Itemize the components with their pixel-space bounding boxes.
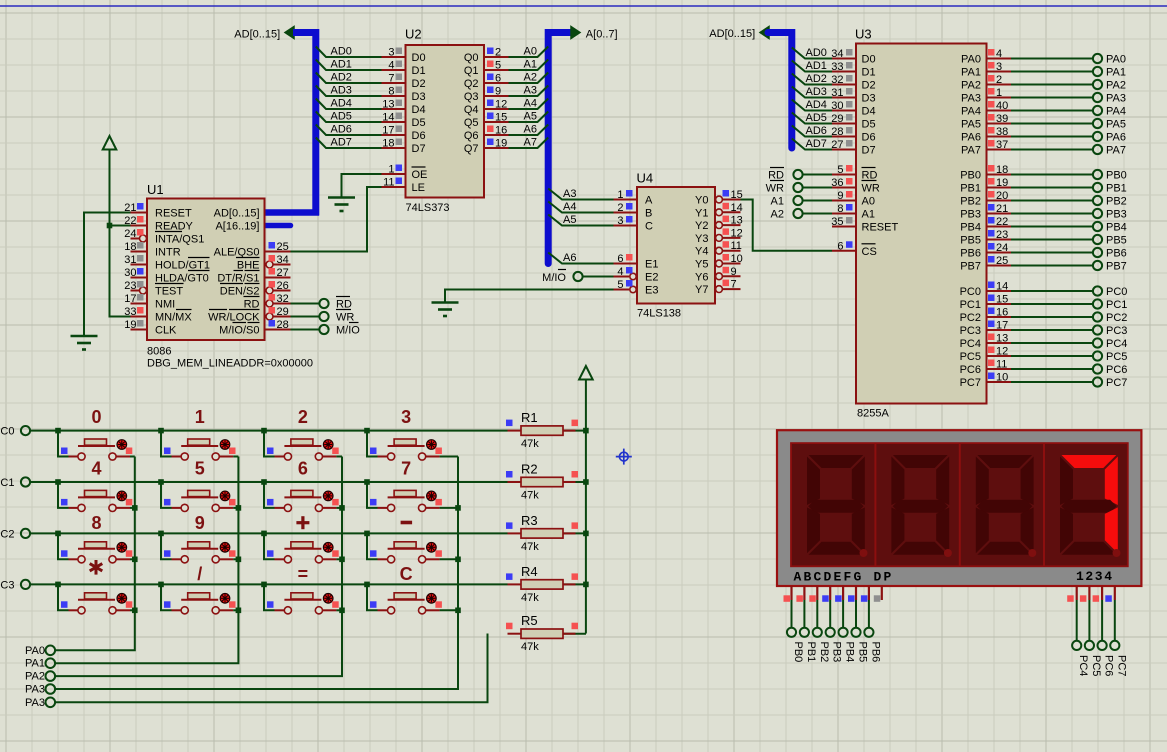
wire AD2 bus entry to U3 D2 bbox=[792, 73, 832, 85]
svg-text:PC6: PC6 bbox=[1106, 364, 1127, 376]
svg-text:PC2: PC2 bbox=[960, 312, 981, 324]
svg-text:D5: D5 bbox=[412, 117, 426, 129]
svg-text:AD4: AD4 bbox=[806, 99, 827, 111]
svg-text:Y0: Y0 bbox=[695, 195, 708, 207]
svg-text:29: 29 bbox=[831, 113, 843, 125]
wire AD5 bus entry to U3 D5 bbox=[792, 112, 832, 124]
wire keypad column 3 vertical to PA3 bbox=[55, 457, 458, 690]
svg-text:22: 22 bbox=[996, 216, 1008, 228]
svg-text:PA6: PA6 bbox=[961, 132, 981, 144]
svg-text:PC6: PC6 bbox=[960, 364, 981, 376]
junction column 0 row 3 bbox=[132, 608, 138, 614]
svg-text:Q1: Q1 bbox=[464, 65, 479, 77]
svg-text:PA4: PA4 bbox=[961, 106, 981, 118]
svg-text:PA2: PA2 bbox=[25, 671, 45, 683]
svg-text:19: 19 bbox=[124, 319, 136, 331]
svg-text:PA2: PA2 bbox=[961, 80, 981, 92]
terminal PA1 bbox=[25, 658, 55, 670]
svg-text:AD3: AD3 bbox=[806, 86, 827, 98]
svg-text:30: 30 bbox=[124, 267, 136, 279]
svg-text:D0: D0 bbox=[412, 52, 426, 64]
svg-text:A3: A3 bbox=[524, 85, 537, 97]
svg-text:25: 25 bbox=[277, 241, 289, 253]
U1 right pins 25,34,27,26,32,29,28 bbox=[265, 241, 291, 331]
svg-text:15: 15 bbox=[495, 112, 507, 124]
svg-text:ALE/QS0: ALE/QS0 bbox=[214, 247, 260, 259]
svg-text:1234: 1234 bbox=[1076, 569, 1114, 584]
U2 right pins Q0-Q7 (2,5,6,9,12,15,16,19) bbox=[464, 47, 509, 156]
svg-text:DBG_MEM_LINEADDR=0x00000: DBG_MEM_LINEADDR=0x00000 bbox=[147, 358, 313, 370]
svg-text:D4: D4 bbox=[862, 106, 876, 118]
button "5" keypad row 1 col 1 bbox=[158, 459, 238, 512]
wire U1 WR to terminal bbox=[291, 316, 320, 318]
svg-text:A4: A4 bbox=[563, 201, 576, 213]
svg-text:8: 8 bbox=[91, 513, 101, 533]
svg-text:10: 10 bbox=[996, 372, 1008, 384]
resistor R3 47k bbox=[506, 513, 586, 553]
svg-text:R1: R1 bbox=[521, 410, 538, 425]
svg-text:PB0: PB0 bbox=[792, 642, 804, 663]
wire AD6 bus entry to U3 D6 bbox=[792, 125, 832, 137]
svg-text:3: 3 bbox=[401, 407, 411, 427]
button "4" keypad row 1 col 0 bbox=[55, 459, 135, 512]
svg-text:26: 26 bbox=[277, 280, 289, 292]
junction column 1 row 2 bbox=[236, 557, 242, 563]
PPI U3 8255A body bbox=[855, 27, 987, 420]
svg-text:Y4: Y4 bbox=[695, 246, 708, 258]
svg-text:4: 4 bbox=[388, 60, 394, 72]
svg-text:INTR: INTR bbox=[155, 247, 181, 259]
wire U2 OE to ground bbox=[342, 174, 382, 197]
svg-text:3: 3 bbox=[388, 47, 394, 59]
button "C" keypad row 3 col 3 bbox=[364, 564, 458, 614]
svg-text:3: 3 bbox=[996, 61, 1002, 73]
svg-text:PC5: PC5 bbox=[1090, 655, 1102, 676]
svg-text:6: 6 bbox=[298, 459, 308, 479]
svg-text:24: 24 bbox=[996, 242, 1008, 254]
svg-text:AD5: AD5 bbox=[331, 111, 352, 123]
svg-text:Q5: Q5 bbox=[464, 117, 479, 129]
wire A4 from bus to U4 bbox=[548, 201, 613, 213]
bus A[0..7] with arrow and label bbox=[548, 27, 617, 264]
svg-text:4: 4 bbox=[617, 266, 623, 278]
svg-text:HLDA/GT0: HLDA/GT0 bbox=[155, 273, 209, 285]
svg-text:47k: 47k bbox=[521, 541, 539, 553]
svg-text:WR: WR bbox=[766, 183, 784, 195]
svg-text:PC5: PC5 bbox=[960, 351, 981, 363]
junction R2 at rail bbox=[583, 479, 589, 485]
svg-text:7: 7 bbox=[401, 459, 411, 479]
wire A3 from bus to U4 bbox=[548, 188, 613, 200]
svg-text:18: 18 bbox=[382, 138, 394, 150]
wire AD2 bus entry to U2 D2 bbox=[316, 72, 382, 84]
svg-text:AD2: AD2 bbox=[806, 73, 827, 85]
svg-text:40: 40 bbox=[996, 100, 1008, 112]
wire A1 terminal to U3 bbox=[803, 200, 832, 202]
svg-text:21: 21 bbox=[996, 203, 1008, 215]
svg-text:A1: A1 bbox=[862, 209, 875, 221]
svg-text:RD: RD bbox=[244, 299, 260, 311]
svg-text:Q0: Q0 bbox=[464, 52, 479, 64]
svg-text:2: 2 bbox=[617, 202, 623, 214]
terminal M/IO bbox=[319, 325, 360, 337]
wire A2 from U2 Q2 to bus bbox=[509, 72, 549, 84]
svg-text:PA1: PA1 bbox=[961, 67, 981, 79]
U4 right pins Y0-Y7 (15,14,13,12,11,10,9,7) with bubbles bbox=[695, 189, 743, 296]
svg-text:Q6: Q6 bbox=[464, 130, 479, 142]
wire keypad column 1 vertical to PA1 bbox=[55, 457, 238, 664]
svg-text:PA3: PA3 bbox=[1106, 93, 1126, 105]
svg-text:Q7: Q7 bbox=[464, 143, 479, 155]
svg-text:12: 12 bbox=[495, 99, 507, 111]
terminal PB1 bbox=[800, 628, 817, 663]
svg-text:AD1: AD1 bbox=[331, 59, 352, 71]
svg-text:PB1: PB1 bbox=[1106, 183, 1127, 195]
svg-text:PA3: PA3 bbox=[961, 93, 981, 105]
svg-text:14: 14 bbox=[996, 281, 1008, 293]
svg-text:PB1: PB1 bbox=[805, 642, 817, 663]
svg-text:74LS138: 74LS138 bbox=[637, 308, 681, 320]
svg-text:PC1: PC1 bbox=[0, 477, 15, 489]
latch U2 74LS373 body bbox=[405, 27, 484, 215]
svg-text:R2: R2 bbox=[521, 462, 538, 477]
terminal PA3 bbox=[25, 684, 55, 696]
svg-text:A[16..19]: A[16..19] bbox=[215, 221, 259, 233]
svg-text:CLK: CLK bbox=[155, 325, 177, 337]
display digit 3 (blank) bbox=[976, 455, 1037, 557]
svg-text:13: 13 bbox=[996, 333, 1008, 345]
svg-text:PA0: PA0 bbox=[961, 54, 981, 66]
wire AD6 bus entry to U2 D6 bbox=[316, 124, 382, 136]
svg-text:47k: 47k bbox=[521, 641, 539, 653]
wire display digit 2 to PC5 bbox=[1088, 600, 1090, 641]
resistor R2 47k bbox=[506, 462, 586, 502]
svg-text:PB4: PB4 bbox=[1106, 222, 1127, 234]
svg-text:DT/R/S1: DT/R/S1 bbox=[217, 273, 259, 285]
button "0" keypad row 0 col 0 bbox=[55, 407, 135, 460]
svg-text:PA0: PA0 bbox=[1106, 54, 1126, 66]
svg-text:1: 1 bbox=[195, 407, 205, 427]
U1 right label overlines (QS0,BHE,R,S1,DEN,S2,RD,WR,LOCK,IO,S0) bbox=[209, 258, 260, 323]
svg-text:PB7: PB7 bbox=[1106, 261, 1127, 273]
wire display segment F to PB5 bbox=[855, 600, 857, 628]
svg-text:PB3: PB3 bbox=[831, 642, 843, 663]
svg-text:7: 7 bbox=[388, 73, 394, 85]
svg-text:2: 2 bbox=[495, 47, 501, 59]
svg-text:D1: D1 bbox=[412, 65, 426, 77]
wire A0 from U2 Q0 to bus bbox=[509, 46, 549, 58]
svg-text:Q4: Q4 bbox=[464, 104, 479, 116]
svg-text:PA4: PA4 bbox=[1106, 106, 1126, 118]
display digit 4 showing 7 bbox=[1060, 455, 1121, 557]
junction R3 at rail bbox=[583, 531, 589, 537]
svg-text:R3: R3 bbox=[521, 513, 538, 528]
svg-text:AD7: AD7 bbox=[331, 137, 352, 149]
svg-text:34: 34 bbox=[831, 48, 843, 60]
U3 left pins D0-D7 (34-27) bbox=[831, 48, 875, 157]
svg-text:A4: A4 bbox=[524, 98, 537, 110]
svg-text:18: 18 bbox=[996, 164, 1008, 176]
svg-text:PB3: PB3 bbox=[960, 209, 981, 221]
svg-text:9: 9 bbox=[195, 513, 205, 533]
svg-text:17: 17 bbox=[382, 125, 394, 137]
svg-text:AD6: AD6 bbox=[331, 124, 352, 136]
junction column 0 row 1 bbox=[132, 505, 138, 511]
wire A5 from U2 Q5 to bus bbox=[509, 111, 549, 123]
svg-text:6: 6 bbox=[495, 73, 501, 85]
svg-text:PC2: PC2 bbox=[1106, 312, 1127, 324]
U1 left pins 21,22,24,18,31,30,23,17,33,19 bbox=[124, 202, 210, 337]
svg-text:OE: OE bbox=[412, 169, 428, 181]
wires and terminals PA0-PA7 bbox=[1011, 54, 1126, 157]
svg-text:PB0: PB0 bbox=[1106, 170, 1127, 182]
svg-text:A7: A7 bbox=[524, 137, 537, 149]
svg-text:MN/MX: MN/MX bbox=[155, 312, 192, 324]
wire A4 from U2 Q4 to bus bbox=[509, 98, 549, 110]
svg-text:Y7: Y7 bbox=[695, 284, 708, 296]
svg-text:A6: A6 bbox=[524, 124, 537, 136]
wire row PC2 (keypad row 2) bbox=[30, 532, 508, 534]
svg-text:M/IO/S0: M/IO/S0 bbox=[219, 325, 259, 337]
ground symbol (U1 reset) bbox=[71, 335, 98, 338]
svg-text:PC7: PC7 bbox=[1115, 655, 1127, 676]
wire ALE/QS0 pin25 to U2 LE bbox=[291, 187, 382, 252]
svg-text:A[0..7]: A[0..7] bbox=[586, 29, 618, 41]
junction column 2 row 2 bbox=[339, 557, 345, 563]
svg-text:36: 36 bbox=[831, 177, 843, 189]
svg-text:PA5: PA5 bbox=[1106, 119, 1126, 131]
wire display segment B to PB1 bbox=[803, 600, 805, 628]
svg-text:4: 4 bbox=[996, 48, 1002, 60]
wire row PC3 (keypad row 3) bbox=[30, 583, 508, 585]
svg-text:PC7: PC7 bbox=[1106, 377, 1127, 389]
svg-text:RESET: RESET bbox=[155, 208, 192, 220]
button "9" keypad row 2 col 1 bbox=[158, 513, 238, 563]
svg-text:32: 32 bbox=[831, 74, 843, 86]
svg-text:AD0: AD0 bbox=[331, 46, 352, 58]
terminal PB3 bbox=[826, 628, 843, 663]
resistor R4 47k bbox=[506, 564, 586, 604]
svg-text:PA3: PA3 bbox=[25, 684, 45, 696]
junction column 2 row 3 bbox=[339, 608, 345, 614]
svg-text:AD1: AD1 bbox=[806, 60, 827, 72]
terminal PA0 bbox=[25, 645, 55, 657]
svg-text:12: 12 bbox=[731, 227, 743, 239]
wire keypad column 0 vertical to PA0 bbox=[55, 457, 135, 651]
button "=" keypad row 3 col 2 bbox=[261, 564, 342, 614]
terminal PC3 bbox=[0, 579, 30, 591]
svg-text:PC5: PC5 bbox=[1106, 351, 1127, 363]
junction R4 at rail bbox=[583, 582, 589, 588]
svg-text:A6: A6 bbox=[563, 252, 576, 264]
svg-text:47k: 47k bbox=[521, 490, 539, 502]
terminal PA3 bbox=[25, 697, 55, 709]
junction column 3 row 3 bbox=[455, 608, 461, 614]
terminal PA2 bbox=[25, 671, 55, 683]
svg-text:PB5: PB5 bbox=[857, 642, 869, 663]
terminal PB0 bbox=[787, 628, 804, 663]
svg-text:23: 23 bbox=[124, 280, 136, 292]
wire U1 RD to terminal bbox=[291, 303, 320, 305]
button "+" keypad row 2 col 2 bbox=[261, 516, 342, 563]
terminal RD bbox=[768, 168, 802, 182]
terminal M/IO (to U4 E2) bbox=[542, 270, 582, 285]
svg-text:ABCDEFG DP: ABCDEFG DP bbox=[794, 570, 894, 585]
svg-text:19: 19 bbox=[495, 138, 507, 150]
svg-text:30: 30 bbox=[831, 100, 843, 112]
wire display segment C to PB2 bbox=[816, 600, 818, 628]
svg-text:8: 8 bbox=[388, 86, 394, 98]
svg-text:PA2: PA2 bbox=[1106, 80, 1126, 92]
svg-text:5: 5 bbox=[617, 279, 623, 291]
svg-text:1: 1 bbox=[617, 189, 623, 201]
terminal WR bbox=[766, 181, 803, 195]
svg-text:PA3: PA3 bbox=[25, 697, 45, 709]
svg-text:PC4: PC4 bbox=[1077, 655, 1089, 676]
svg-text:Y2: Y2 bbox=[695, 220, 708, 232]
svg-text:U1: U1 bbox=[147, 182, 164, 197]
svg-text:Y1: Y1 bbox=[695, 207, 708, 219]
svg-text:RD: RD bbox=[862, 170, 878, 182]
svg-text:E1: E1 bbox=[645, 259, 658, 271]
svg-text:16: 16 bbox=[495, 125, 507, 137]
svg-text:PC0: PC0 bbox=[1106, 286, 1127, 298]
svg-text:PA7: PA7 bbox=[1106, 145, 1126, 157]
svg-text:AD2: AD2 bbox=[331, 72, 352, 84]
terminal PC0 bbox=[0, 426, 30, 438]
svg-text:A2: A2 bbox=[524, 72, 537, 84]
svg-text:AD[0..15]: AD[0..15] bbox=[234, 29, 280, 41]
svg-text:D1: D1 bbox=[862, 67, 876, 79]
svg-text:AD4: AD4 bbox=[331, 98, 352, 110]
U4 left pins A,B,C,E1,E2,E3 (1,2,3,6,4,5) bbox=[614, 189, 659, 297]
svg-text:WR/LOCK: WR/LOCK bbox=[208, 312, 260, 324]
svg-text:35: 35 bbox=[831, 216, 843, 228]
terminal RD bbox=[319, 299, 352, 311]
wire WR terminal to U3 bbox=[803, 187, 832, 189]
svg-text:PA0: PA0 bbox=[25, 645, 45, 657]
svg-text:INTA/QS1: INTA/QS1 bbox=[155, 234, 204, 246]
U2 pins OE(1) LE(11) bbox=[382, 164, 428, 195]
svg-text:NMI: NMI bbox=[155, 299, 175, 311]
svg-text:A1: A1 bbox=[771, 196, 784, 208]
svg-text:C: C bbox=[400, 564, 413, 584]
terminal label overlines RD / WR / IO bbox=[336, 297, 359, 323]
svg-text:24: 24 bbox=[124, 228, 136, 240]
display digit pins with state squares bbox=[1067, 586, 1115, 602]
resistor R5 47k bbox=[506, 613, 586, 653]
svg-text:Y3: Y3 bbox=[695, 233, 708, 245]
svg-text:U2: U2 bbox=[405, 27, 422, 42]
svg-text:27: 27 bbox=[831, 139, 843, 151]
svg-text:74LS373: 74LS373 bbox=[406, 202, 450, 214]
svg-text:47k: 47k bbox=[521, 438, 539, 450]
wire U1 RESET to ground bbox=[84, 213, 131, 337]
bus AD[0..15] left segment with arrow and label bbox=[234, 27, 315, 216]
svg-text:D6: D6 bbox=[862, 132, 876, 144]
bus pin AD[0..15] of U1 (thick bar) bbox=[264, 209, 319, 216]
button "6" keypad row 1 col 2 bbox=[261, 459, 342, 512]
wire AD4 bus entry to U2 D4 bbox=[316, 98, 382, 110]
svg-text:3: 3 bbox=[617, 215, 623, 227]
svg-text:16: 16 bbox=[996, 307, 1008, 319]
svg-text:PB4: PB4 bbox=[844, 642, 856, 663]
wire E3 to ground bbox=[445, 290, 614, 302]
svg-text:28: 28 bbox=[277, 319, 289, 331]
svg-text:Q3: Q3 bbox=[464, 91, 479, 103]
svg-text:E3: E3 bbox=[645, 285, 658, 297]
svg-text:0: 0 bbox=[91, 407, 101, 427]
U3 right pins PB0-PB7 bbox=[960, 164, 1011, 273]
svg-text:PB2: PB2 bbox=[960, 196, 981, 208]
wire display digit 1 to PC4 bbox=[1076, 600, 1078, 641]
decoder U4 74LS138 body bbox=[637, 171, 716, 320]
svg-text:C: C bbox=[645, 221, 653, 233]
svg-text:PA1: PA1 bbox=[25, 658, 45, 670]
svg-text:LE: LE bbox=[412, 182, 425, 194]
svg-text:18: 18 bbox=[124, 241, 136, 253]
button "8" keypad row 2 col 0 bbox=[55, 513, 135, 563]
svg-text:12: 12 bbox=[996, 346, 1008, 358]
svg-text:D0: D0 bbox=[862, 54, 876, 66]
wire AD7 bus entry to U2 D7 bbox=[316, 137, 382, 149]
svg-text:PC0: PC0 bbox=[960, 286, 981, 298]
power symbol VCC (U1) bbox=[103, 136, 117, 150]
svg-text:M/IO: M/IO bbox=[336, 325, 360, 337]
display digit 2 (blank) bbox=[891, 455, 952, 557]
button "7" keypad row 1 col 3 bbox=[364, 459, 458, 512]
wire AD3 bus entry to U3 D3 bbox=[792, 86, 832, 98]
svg-text:PB6: PB6 bbox=[1106, 248, 1127, 260]
wire RD terminal to U3 bbox=[803, 174, 832, 176]
svg-text:31: 31 bbox=[124, 254, 136, 266]
svg-text:WR: WR bbox=[336, 312, 354, 324]
wire AD1 bus entry to U3 D1 bbox=[792, 60, 832, 72]
terminal PB2 bbox=[813, 628, 830, 663]
svg-text:A: A bbox=[645, 195, 653, 207]
svg-text:PC3: PC3 bbox=[1106, 325, 1127, 337]
svg-text:RD: RD bbox=[336, 299, 352, 311]
svg-text:U4: U4 bbox=[637, 171, 654, 186]
svg-text:19: 19 bbox=[996, 177, 1008, 189]
junction R1 at rail bbox=[583, 428, 589, 434]
svg-text:9: 9 bbox=[495, 86, 501, 98]
U3 right pins PC0-PC7 bbox=[960, 281, 1011, 390]
svg-text:CS: CS bbox=[862, 246, 877, 258]
svg-text:39: 39 bbox=[996, 113, 1008, 125]
wire row PC0 (keypad row 0) bbox=[30, 430, 508, 432]
svg-text:AD3: AD3 bbox=[331, 85, 352, 97]
svg-text:PC7: PC7 bbox=[960, 377, 981, 389]
svg-text:D7: D7 bbox=[862, 145, 876, 157]
svg-text:D2: D2 bbox=[862, 80, 876, 92]
wire U1 M/IO to terminal bbox=[291, 329, 320, 331]
terminal PC6 bbox=[1098, 641, 1115, 677]
wire A7 from U2 Q7 to bus bbox=[509, 137, 549, 149]
svg-text:A0: A0 bbox=[524, 46, 537, 58]
svg-text:PB6: PB6 bbox=[960, 248, 981, 260]
svg-text:4: 4 bbox=[91, 459, 101, 479]
svg-text:DEN/S2: DEN/S2 bbox=[220, 286, 260, 298]
svg-text:11: 11 bbox=[731, 240, 742, 252]
sheet border bbox=[0, 5, 1167, 7]
display 4-digit 7-segment module bbox=[777, 430, 1141, 586]
wire display digit 3 to PC6 bbox=[1101, 600, 1103, 641]
svg-text:8255A: 8255A bbox=[857, 408, 889, 420]
ground symbol (U4 E3) bbox=[432, 301, 459, 304]
wire AD7 bus entry to U3 D7 bbox=[792, 138, 832, 150]
svg-text:=: = bbox=[298, 564, 309, 584]
